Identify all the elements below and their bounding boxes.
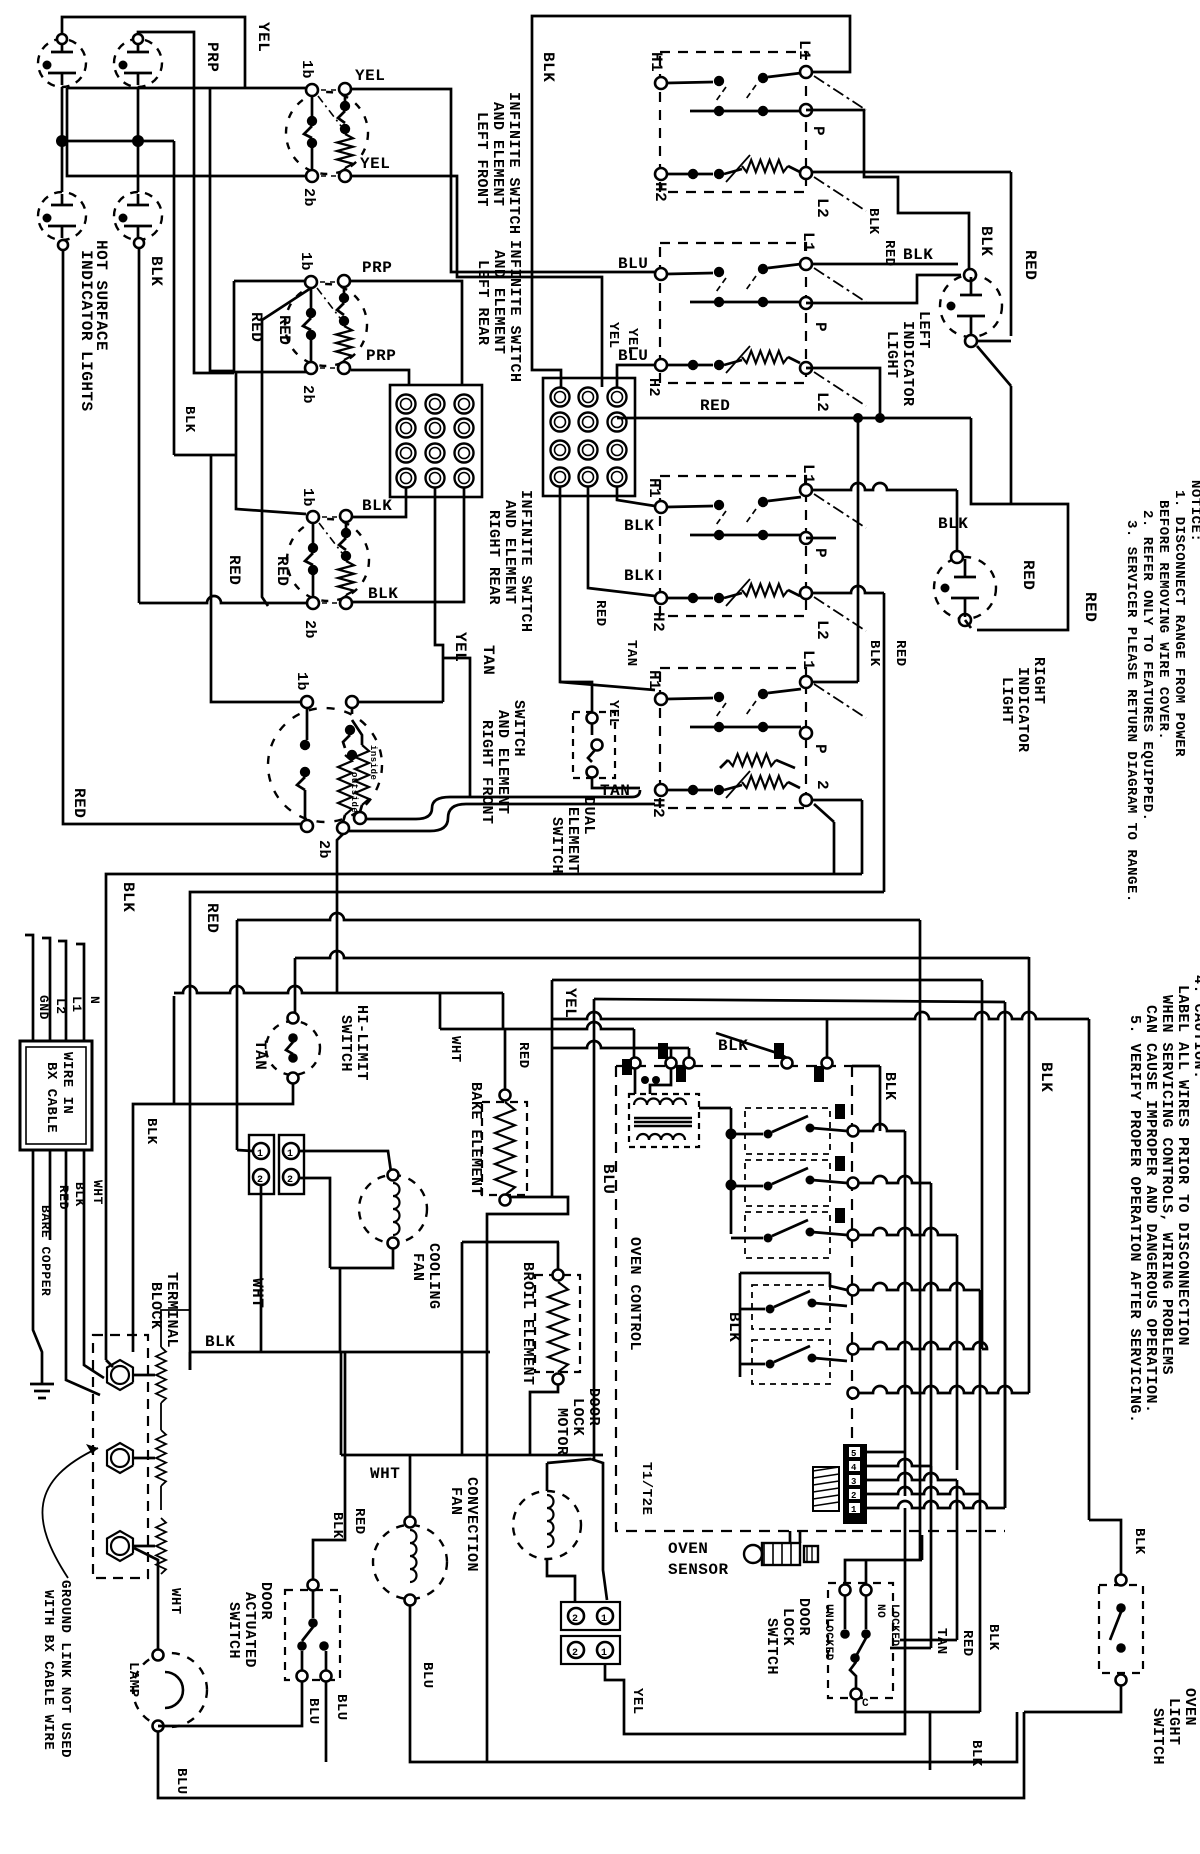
infinite switch left rear dashed body xyxy=(285,284,367,366)
surface unit right rear contacts xyxy=(655,501,667,513)
svg-text:WHT: WHT xyxy=(248,1278,266,1308)
infinite switch right rear terminal dashes xyxy=(322,516,337,518)
svg-text:BLK: BLK xyxy=(725,1312,743,1342)
svg-text:WHT: WHT xyxy=(90,1180,105,1205)
wire TAN drop xyxy=(443,658,470,797)
svg-text:SWITCH: SWITCH xyxy=(510,700,527,757)
svg-text:FAN: FAN xyxy=(447,1487,464,1516)
wire L2 unit3 to bus B xyxy=(812,586,884,593)
wire WHT horizontal xyxy=(341,1454,603,1457)
svg-text:LOCK: LOCK xyxy=(569,1398,586,1436)
wire YEL bottom output to terminal block 2 xyxy=(351,176,602,387)
svg-text:RIGHT FRONT: RIGHT FRONT xyxy=(478,720,495,825)
svg-text:BX CABLE: BX CABLE xyxy=(43,1062,59,1133)
svg-text:RED: RED xyxy=(1019,560,1037,590)
wire lamp to door switch xyxy=(158,1681,302,1726)
svg-text:BLK: BLK xyxy=(865,208,881,235)
infinite switch left front dashed body xyxy=(286,92,368,174)
surface unit left front resistor xyxy=(655,168,667,180)
svg-text:L1: L1 xyxy=(799,650,817,670)
wire block2 to H2 unit3 xyxy=(588,487,655,596)
terminal stud squiggles xyxy=(133,1374,155,1377)
svg-text:YEL: YEL xyxy=(629,1688,645,1715)
svg-text:RED: RED xyxy=(56,1185,71,1210)
transformer leads xyxy=(634,1069,637,1094)
svg-text:INFINITE SWITCH: INFINITE SWITCH xyxy=(506,240,523,383)
svg-text:T1/T2E: T1/T2E xyxy=(638,1462,654,1515)
svg-text:L2: L2 xyxy=(813,198,831,218)
door lock switch dashed box xyxy=(828,1583,893,1698)
svg-text:BLK: BLK xyxy=(329,1512,345,1539)
svg-text:L2: L2 xyxy=(813,620,831,640)
svg-text:P: P xyxy=(811,548,829,558)
svg-text:RED: RED xyxy=(70,788,88,818)
svg-text:YEL: YEL xyxy=(360,155,390,173)
wire left-rear feed loop xyxy=(234,280,305,283)
svg-text:SWITCH: SWITCH xyxy=(1149,1708,1166,1765)
svg-text:L1: L1 xyxy=(799,232,817,252)
wire C terminal down xyxy=(856,1699,930,1770)
svg-text:BARE COPPER: BARE COPPER xyxy=(38,1205,53,1296)
svg-text:CONVECTION: CONVECTION xyxy=(463,1477,480,1572)
hot surface indicator light 1 xyxy=(38,39,86,87)
wire P unit2 to indicator xyxy=(806,275,961,303)
wire connector down YEL xyxy=(605,1508,905,1734)
wire hi-limit bottom Z xyxy=(133,1083,293,1352)
surface unit left rear resistor xyxy=(655,359,667,371)
svg-text:1: 1 xyxy=(601,1614,608,1625)
svg-text:DOOR: DOOR xyxy=(257,1582,274,1620)
svg-text:H2: H2 xyxy=(645,378,662,397)
svg-text:RIGHT: RIGHT xyxy=(1030,657,1047,705)
svg-text:3. SERVICER PLEASE RETURN DIAG: 3. SERVICER PLEASE RETURN DIAGRAM TO RAN… xyxy=(1123,520,1139,903)
svg-text:RED: RED xyxy=(515,1042,531,1069)
svg-text:INDICATOR LIGHTS: INDICATOR LIGHTS xyxy=(77,250,95,412)
svg-text:BLK: BLK xyxy=(143,1118,159,1145)
svg-text:HI-LIMIT: HI-LIMIT xyxy=(353,1005,370,1081)
bake element xyxy=(482,1102,527,1195)
junction dots xyxy=(56,135,68,147)
svg-text:inside: inside xyxy=(368,745,378,780)
svg-text:YEL: YEL xyxy=(605,700,621,727)
terminal stud 2 xyxy=(107,1443,133,1473)
wire R5 BLK xyxy=(551,1012,1089,1019)
svg-text:YEL: YEL xyxy=(355,67,385,85)
wires connector to risers xyxy=(867,1451,905,1454)
ground link arrow xyxy=(42,1448,98,1578)
svg-text:OVEN: OVEN xyxy=(668,1540,708,1558)
hi-limit switch xyxy=(266,1021,320,1075)
wire relay outputs xyxy=(858,1124,905,1131)
surface unit left front contacts xyxy=(655,77,667,89)
wire light1-light3 vertical xyxy=(61,87,64,192)
convection fan xyxy=(373,1525,447,1599)
wire block2 to H1 unit3 xyxy=(617,487,655,506)
svg-text:2b: 2b xyxy=(300,188,317,207)
surface unit right front dashed box xyxy=(660,668,806,808)
wire RED from block2 pin7 xyxy=(617,417,971,420)
wire BLK riser x174 xyxy=(173,141,176,455)
infinite switch left front element resistor xyxy=(344,95,347,101)
oven light switch dashed box xyxy=(1099,1585,1143,1673)
transformer xyxy=(629,1094,699,1147)
wire TAN RED BLK drops xyxy=(930,1466,933,1648)
svg-text:AND ELEMENT: AND ELEMENT xyxy=(494,710,511,815)
svg-text:2b: 2b xyxy=(299,385,316,404)
svg-text:WHT: WHT xyxy=(370,1465,400,1483)
infinite switch left rear element resistor xyxy=(343,287,346,293)
wire oven light feeds xyxy=(1089,1520,1121,1575)
indicator light terminals xyxy=(57,34,67,44)
svg-text:ELEMENT: ELEMENT xyxy=(564,807,581,874)
wire sensor leads xyxy=(789,1531,792,1543)
surface unit left rear contacts xyxy=(655,268,667,280)
wire L1 unit3 to right indicator xyxy=(812,483,957,490)
wire PRP top output to terminal block 1 xyxy=(351,281,462,386)
svg-text:TAN: TAN xyxy=(933,1628,949,1655)
wire pin2 diagonal xyxy=(814,804,834,822)
wire PRP bottom output to terminal block 1 xyxy=(351,370,409,386)
bus B RED xyxy=(190,892,884,1370)
wire RED jog to right indicator xyxy=(971,418,1068,630)
svg-text:BLU: BLU xyxy=(333,1694,349,1721)
wire L2 unit1 RED riser xyxy=(812,171,1011,174)
svg-text:BLK: BLK xyxy=(938,515,968,533)
svg-text:DOOR: DOOR xyxy=(795,1598,812,1636)
svg-text:LIGHT: LIGHT xyxy=(883,331,900,379)
svg-text:RED: RED xyxy=(592,600,608,627)
wire feeds into oven control terminals xyxy=(633,1029,636,1057)
svg-text:L2: L2 xyxy=(813,392,831,412)
oven control dashed box xyxy=(616,1066,852,1531)
wire P unit3 stub xyxy=(806,537,836,540)
svg-text:WHEN SERVICING CONTROLS, WIRIN: WHEN SERVICING CONTROLS, WIRING PROBLEMS xyxy=(1158,995,1175,1375)
wires below BX box xyxy=(33,1150,42,1372)
svg-text:SWITCH: SWITCH xyxy=(548,817,565,874)
svg-text:BLK: BLK xyxy=(119,882,137,912)
wire right column verticals xyxy=(879,1066,882,1131)
svg-text:3: 3 xyxy=(851,1477,857,1487)
BX cable terminal box xyxy=(20,1041,92,1150)
wire dual switch top feed xyxy=(560,682,592,713)
wire branch to left-rear xyxy=(210,88,234,371)
svg-text:2: 2 xyxy=(851,1491,857,1501)
svg-text:1: 1 xyxy=(851,1505,857,1515)
svg-text:1b: 1b xyxy=(297,252,314,271)
svg-text:BLK: BLK xyxy=(977,226,995,256)
svg-text:LABEL ALL WIRES PRIOR TO DISCO: LABEL ALL WIRES PRIOR TO DISCONNECTION xyxy=(1174,985,1191,1346)
infinite switch left front terminal dashes xyxy=(321,89,336,91)
svg-text:2: 2 xyxy=(572,1648,579,1659)
relay bank 2 xyxy=(740,1272,830,1275)
wire BLK top loop from unit1 L1 xyxy=(532,16,850,387)
svg-text:INDICATOR: INDICATOR xyxy=(899,321,916,407)
svg-text:LEFT FRONT: LEFT FRONT xyxy=(473,112,490,207)
svg-text:WITH BX CABLE WIRE: WITH BX CABLE WIRE xyxy=(40,1590,56,1750)
svg-text:BAKE ELEMENT: BAKE ELEMENT xyxy=(467,1082,484,1196)
svg-text:BLK: BLK xyxy=(985,1624,1001,1651)
svg-text:FAN: FAN xyxy=(409,1253,426,1282)
svg-text:BLK: BLK xyxy=(205,1333,235,1351)
svg-text:H2: H2 xyxy=(649,612,667,632)
svg-text:SWITCH: SWITCH xyxy=(225,1602,242,1659)
infinite switch right rear dashed body xyxy=(287,519,369,601)
infinite switch left front contact arm xyxy=(311,96,314,116)
infinite switch left rear contact arm xyxy=(310,288,313,308)
svg-text:LAMP: LAMP xyxy=(125,1662,141,1698)
surface unit right rear dashed box xyxy=(660,476,806,616)
svg-text:AND ELEMENT: AND ELEMENT xyxy=(489,102,506,207)
mechanical dash-dot couplings xyxy=(814,76,866,110)
svg-text:TAN: TAN xyxy=(623,640,639,667)
svg-text:1: 1 xyxy=(287,1149,294,1160)
terminal tags xyxy=(622,1059,632,1075)
svg-text:BLK: BLK xyxy=(72,1182,87,1207)
svg-text:BLK: BLK xyxy=(539,52,557,82)
svg-text:1. DISCONNECT RANGE FROM POWER: 1. DISCONNECT RANGE FROM POWER xyxy=(1171,490,1187,757)
wire YEL riser xyxy=(551,980,554,1196)
wire connector to cooling fan xyxy=(299,1151,391,1172)
svg-text:WHT: WHT xyxy=(167,1588,183,1615)
svg-text:RED: RED xyxy=(351,1508,367,1535)
bus C xyxy=(237,913,920,920)
svg-text:YEL: YEL xyxy=(605,322,621,349)
svg-text:INFINITE SWITCH: INFINITE SWITCH xyxy=(505,92,522,235)
wire unit4 pin2 to bus xyxy=(812,799,862,802)
svg-text:PRP: PRP xyxy=(366,347,396,365)
svg-text:AND ELEMENT: AND ELEMENT xyxy=(490,250,507,355)
svg-text:4: 4 xyxy=(851,1463,857,1473)
door actuated switch contacts xyxy=(308,1580,319,1591)
svg-text:5. VERIFY PROPER OPERATION AFT: 5. VERIFY PROPER OPERATION AFTER SERVICI… xyxy=(1126,1015,1143,1424)
svg-text:BLK: BLK xyxy=(903,246,933,264)
wire RED from light 3 xyxy=(63,250,302,824)
svg-text:RED: RED xyxy=(275,315,293,345)
svg-text:INDICATOR: INDICATOR xyxy=(1014,667,1031,753)
door lock switch contacts xyxy=(840,1585,851,1596)
svg-text:BLK: BLK xyxy=(362,497,392,515)
svg-text:2b: 2b xyxy=(301,620,318,639)
svg-text:BLK: BLK xyxy=(1131,1528,1147,1555)
svg-text:OVEN CONTROL: OVEN CONTROL xyxy=(626,1237,643,1351)
svg-text:H1: H1 xyxy=(645,670,663,690)
door actuated switch dashed box xyxy=(285,1590,340,1680)
bus A BLK xyxy=(106,874,862,1360)
hot surface indicator light 2 xyxy=(114,39,162,87)
svg-text:LOCKED: LOCKED xyxy=(888,1604,900,1647)
wire BLK horizontal xyxy=(190,1351,490,1354)
infinite switch right rear terminals xyxy=(307,511,319,523)
svg-text:TAN: TAN xyxy=(251,1040,269,1070)
oven light switch contacts xyxy=(1116,1575,1127,1586)
svg-text:LOCK: LOCK xyxy=(779,1608,796,1646)
svg-text:RED: RED xyxy=(959,1630,975,1657)
wire bus D to hi-limit xyxy=(294,958,297,1013)
wire door lock feeds xyxy=(845,1560,922,1585)
wire L1 unit2 BLK run xyxy=(812,263,958,266)
svg-text:PRP: PRP xyxy=(362,259,392,277)
svg-text:L1: L1 xyxy=(69,996,84,1013)
terminal stud 1 xyxy=(107,1360,133,1390)
svg-text:1b: 1b xyxy=(298,60,315,79)
svg-text:BLU: BLU xyxy=(618,347,648,365)
connector body hatch xyxy=(813,1467,839,1511)
svg-text:L1: L1 xyxy=(799,464,817,484)
wire connector R pin2 xyxy=(299,1178,330,1268)
svg-text:GROUND LINK NOT USED: GROUND LINK NOT USED xyxy=(57,1580,73,1758)
svg-text:RED: RED xyxy=(892,640,908,667)
wire indicator bottom diagonal xyxy=(977,346,1011,386)
svg-text:BLU: BLU xyxy=(419,1662,435,1689)
wire BLK drop xyxy=(173,996,176,1104)
svg-text:DOOR: DOOR xyxy=(585,1388,602,1426)
oven control bottom dashed extension xyxy=(852,1530,1005,1532)
wire switch drop WHT xyxy=(337,834,343,993)
svg-text:BLK: BLK xyxy=(147,256,165,286)
door lock motor circle xyxy=(513,1491,581,1559)
surface unit left front dashed box xyxy=(660,52,806,192)
svg-text:BLK: BLK xyxy=(866,640,882,667)
unit terminals right column xyxy=(800,66,812,78)
surface unit right rear resistor xyxy=(655,592,667,604)
relay feed bus xyxy=(730,1108,733,1234)
lamp xyxy=(133,1653,207,1727)
connector block left xyxy=(249,1135,274,1194)
svg-text:1: 1 xyxy=(257,1149,264,1160)
svg-text:TAN: TAN xyxy=(600,782,630,800)
wire BLK from light 4 to right-rear 2b xyxy=(139,596,307,603)
wire bus A into stud 1 xyxy=(106,1360,113,1367)
infinite switch right rear contact arm xyxy=(312,523,315,543)
wire light2-light4 vertical xyxy=(137,87,140,192)
dual element switch xyxy=(573,712,615,778)
wire RED riser from 1b xyxy=(262,288,311,606)
right-front element resistors inside/outside xyxy=(351,708,354,714)
wire block2 to H1 unit4 xyxy=(560,487,655,690)
wire convection fan bottom BLU xyxy=(410,1605,1017,1762)
wire door lock motor loop xyxy=(591,1459,607,1600)
svg-text:H2: H2 xyxy=(651,182,669,202)
svg-text:OVEN: OVEN xyxy=(1181,1688,1198,1726)
svg-text:WIRE IN: WIRE IN xyxy=(59,1052,75,1114)
svg-text:RED: RED xyxy=(1081,592,1099,622)
svg-text:DUAL: DUAL xyxy=(580,797,597,835)
svg-text:H1: H1 xyxy=(647,52,665,72)
motor connector blocks xyxy=(561,1602,620,1630)
svg-text:YEL: YEL xyxy=(561,988,579,1018)
wire BLU source xyxy=(594,999,1005,1002)
wire connector 2 down xyxy=(260,1185,263,1352)
svg-text:L1: L1 xyxy=(795,40,813,60)
svg-text:RED: RED xyxy=(203,903,221,933)
svg-text:H1: H1 xyxy=(645,478,663,498)
svg-text:UNLOCKED: UNLOCKED xyxy=(822,1604,834,1661)
wire bus B to BLK line xyxy=(189,1352,192,1370)
svg-text:2: 2 xyxy=(813,780,831,790)
svg-text:BLK: BLK xyxy=(1037,1062,1055,1092)
bus E xyxy=(174,986,503,993)
wire broil bottom xyxy=(530,1384,558,1455)
cooling fan xyxy=(359,1175,427,1243)
svg-text:RED: RED xyxy=(1021,250,1039,280)
svg-text:NO: NO xyxy=(874,1604,886,1618)
wire BLU feed H2 unit2 xyxy=(617,365,655,387)
surface unit left rear dashed box xyxy=(660,243,806,383)
wire YEL top output to H1 unit2 xyxy=(351,89,655,272)
svg-text:INFINITE SWITCH: INFINITE SWITCH xyxy=(517,490,534,633)
svg-text:MOTOR: MOTOR xyxy=(553,1408,570,1456)
left indicator light xyxy=(940,275,1002,337)
wire PRP from light 2 top xyxy=(138,32,234,373)
svg-text:BLK: BLK xyxy=(881,1072,898,1101)
svg-text:LEFT: LEFT xyxy=(915,311,932,349)
svg-text:BLK: BLK xyxy=(624,567,654,585)
wire convection fan top xyxy=(409,1455,412,1517)
svg-text:LIGHT: LIGHT xyxy=(1165,1698,1182,1746)
svg-text:H2: H2 xyxy=(649,798,667,818)
surface unit right front resistor xyxy=(655,784,667,796)
svg-text:N: N xyxy=(87,996,102,1004)
svg-text:BLU: BLU xyxy=(618,255,648,273)
wire junction bus to BLK riser xyxy=(62,140,174,143)
svg-text:COOLING: COOLING xyxy=(425,1243,442,1310)
svg-text:SENSOR: SENSOR xyxy=(668,1561,729,1579)
wire motor bottom to connector xyxy=(547,1559,575,1602)
right-front switch terminals xyxy=(301,696,313,708)
svg-text:LIGHT: LIGHT xyxy=(998,677,1015,725)
broil element xyxy=(535,1275,580,1372)
svg-text:SWITCH: SWITCH xyxy=(337,1015,354,1072)
wire P unit1 to indicator xyxy=(806,110,969,268)
right-front switch arm xyxy=(306,708,309,740)
supply stubs N L1 L2 GND xyxy=(25,935,33,1041)
wire stud fingers xyxy=(161,1310,190,1347)
right-front switch dashed body xyxy=(268,708,382,822)
svg-text:5: 5 xyxy=(851,1449,857,1459)
wire RED drop to right-front 1b xyxy=(211,455,300,702)
svg-text:1b: 1b xyxy=(299,488,316,507)
svg-text:GND: GND xyxy=(36,995,51,1020)
svg-text:2. REFER ONLY TO FEATURES EQUI: 2. REFER ONLY TO FEATURES EQUIPPED. xyxy=(1139,510,1155,822)
wire lamp top xyxy=(134,1548,158,1650)
wire bake top RED xyxy=(504,1029,507,1090)
oven sensor xyxy=(744,1545,762,1563)
wire right-front outputs to right section xyxy=(349,804,655,831)
wire right indicator bottom stem xyxy=(965,620,971,628)
svg-text:PRP: PRP xyxy=(203,42,221,72)
terminal block dashed outline xyxy=(93,1335,148,1578)
svg-text:AND ELEMENT: AND ELEMENT xyxy=(501,500,518,605)
svg-text:BLU: BLU xyxy=(173,1768,189,1795)
relay terminals 2 xyxy=(848,1285,859,1296)
wire right-front second terminal xyxy=(358,701,443,704)
terminal stud 3 xyxy=(107,1531,133,1561)
wire door switch top feed xyxy=(313,1352,345,1580)
hot surface indicator light 3 xyxy=(38,192,86,240)
svg-text:ACTUATED: ACTUATED xyxy=(241,1592,258,1668)
infinite switch left front terminals xyxy=(306,84,318,96)
svg-text:BLU: BLU xyxy=(305,1698,321,1725)
svg-text:WHT: WHT xyxy=(447,1036,463,1063)
svg-text:BROIL ELEMENT: BROIL ELEMENT xyxy=(519,1262,536,1386)
svg-text:RED: RED xyxy=(700,397,730,415)
svg-text:SWITCH: SWITCH xyxy=(763,1618,780,1675)
svg-text:CAN CAUSE IMPROPER AND DANGERO: CAN CAUSE IMPROPER AND DANGEROUS OPERATI… xyxy=(1142,1005,1159,1414)
svg-text:P: P xyxy=(811,322,829,332)
ground symbol xyxy=(41,1372,44,1384)
wire BLU long drop xyxy=(593,999,596,1459)
svg-text:BEFORE REMOVING WIRE COVER.: BEFORE REMOVING WIRE COVER. xyxy=(1155,500,1171,740)
